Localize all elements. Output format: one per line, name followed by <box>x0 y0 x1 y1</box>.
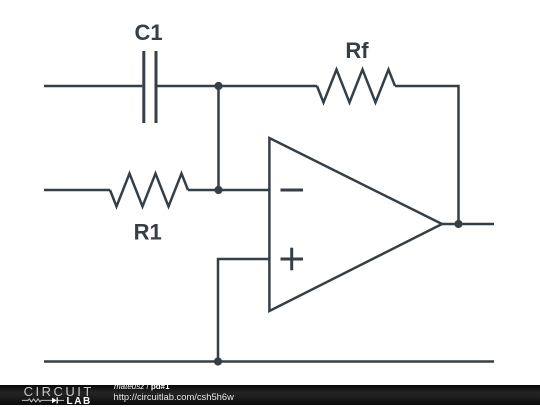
wire non-inverting input to ground rail <box>218 259 269 362</box>
resistor Rf <box>317 70 395 103</box>
node ground rail junction <box>214 357 222 365</box>
resistor R1 <box>110 174 188 207</box>
node inverting input junction <box>214 186 222 194</box>
footer bar <box>0 385 540 405</box>
wire op-amp output <box>442 223 494 226</box>
wire Rf to output node <box>395 86 459 224</box>
op-amp U1 <box>269 138 442 311</box>
wire input to C1 <box>44 85 142 88</box>
wire R1 to op-amp inverting input <box>188 189 269 192</box>
logo LAB text <box>67 397 92 406</box>
svg-text:C1: C1 <box>135 20 163 45</box>
node output junction <box>454 220 462 228</box>
svg-text:R1: R1 <box>134 220 162 245</box>
footer line 2 <box>114 392 234 402</box>
logo CIRCUIT text <box>24 386 94 397</box>
svg-text:Rf: Rf <box>345 38 369 63</box>
wire node to node vertical <box>217 86 220 190</box>
logo resistor-diode glyph <box>20 395 70 406</box>
node C1/Rf junction <box>214 82 222 90</box>
footer line 1 <box>114 382 170 391</box>
wire C1 to Rf <box>158 85 318 88</box>
op-amp plus sign <box>281 248 304 271</box>
wire input to R1 <box>44 189 110 192</box>
op-amp minus sign <box>281 189 304 192</box>
capacitor C1 <box>144 51 156 123</box>
wire bottom rail <box>44 360 494 363</box>
